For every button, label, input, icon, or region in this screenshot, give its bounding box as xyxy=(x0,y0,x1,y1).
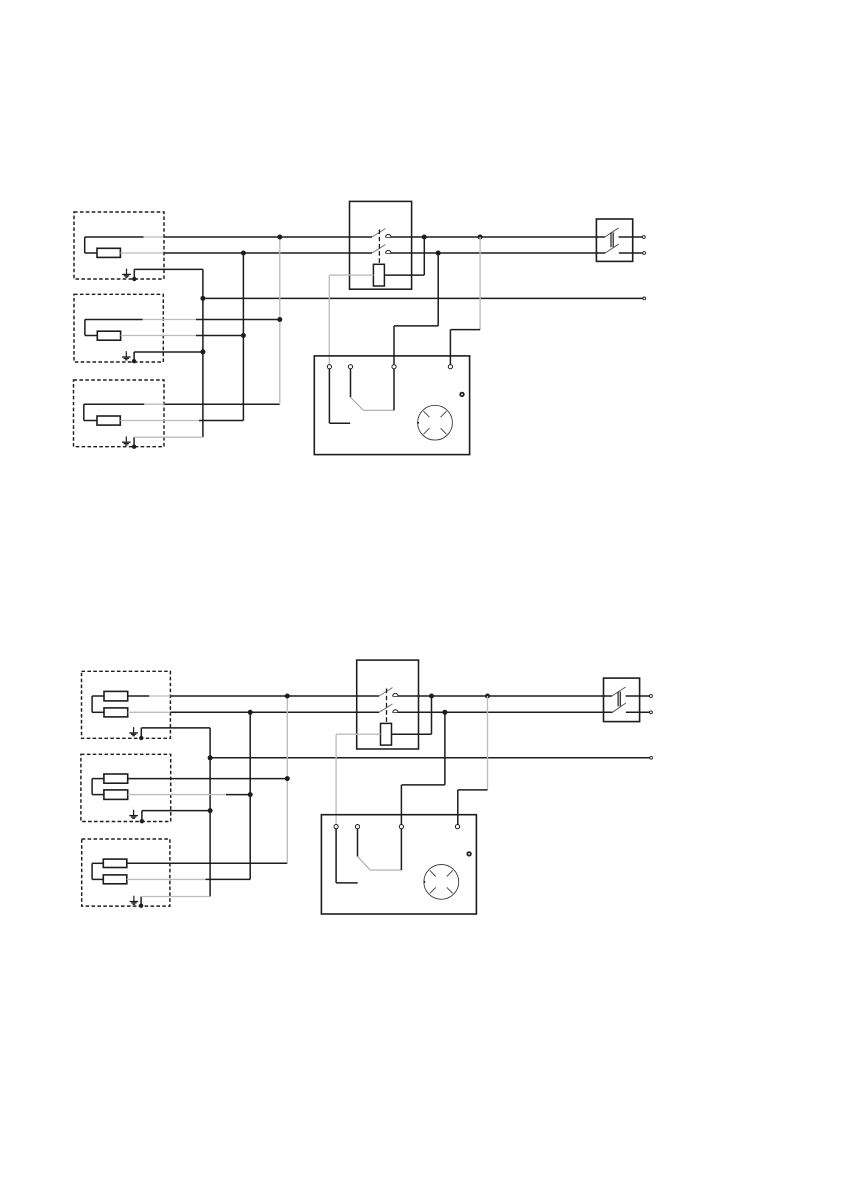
heater 1 enclosure (dashed, top diagram) xyxy=(74,212,164,279)
heater 2 enclosure (dashed, bottom) xyxy=(81,754,171,821)
thermostat switch blade (grey, bottom) xyxy=(358,857,402,871)
node: earth bus / wire PE junction xyxy=(200,296,205,301)
node: earth bus / heater 2 earth junction xyxy=(200,349,205,354)
heater 2 return wire, y=335.5 xyxy=(121,335,244,337)
wire: thermostat terminal 4 feed (grey riser) xyxy=(450,237,480,365)
wire: grey drop to thermostat terminal 1 (bottom) xyxy=(335,734,337,824)
wire PE (top): earth line, y=298 xyxy=(203,297,643,299)
heater 3 enclosure (dashed) xyxy=(74,380,165,447)
thermostat terminal 1 (bottom) xyxy=(334,825,338,829)
heater 1 earth wire xyxy=(132,269,203,281)
switch S1 pole 2 blade (bottom) xyxy=(379,704,392,712)
wire L (top): heater 1 to mains, y=237 xyxy=(85,236,643,238)
heater 2 enclosure (dashed) xyxy=(74,294,163,362)
heater 1 enclosure (dashed, bottom diagram) xyxy=(82,671,171,738)
connector X1 pole 2 symbol (bottom) xyxy=(612,703,626,712)
wire: thermostat terminal 3 feed (bottom) xyxy=(401,712,445,824)
node: bus/wire L junction xyxy=(277,235,282,240)
connector X1 pole 1 symbol (bottom) xyxy=(612,687,626,696)
heater 1 element R1a (bottom) xyxy=(104,691,128,701)
terminal: wire L end (top) xyxy=(643,236,646,239)
wire: actuator F1 left lead (grey) xyxy=(329,274,373,276)
connector X1 pole 1 symbol xyxy=(605,228,619,237)
wire: thermostat terminal 3 leg (bottom) xyxy=(400,829,402,870)
thermostat terminal 2 (bottom) xyxy=(355,825,359,829)
heater 2 ground symbol (bottom) xyxy=(129,810,138,819)
wire: thermostat terminal 4 feed (grey riser, bottom) xyxy=(458,696,488,825)
wire N (bottom): heater 1 to mains, y=712.3 xyxy=(128,711,650,713)
node: bus/heater2 return junction (bottom) xyxy=(248,792,253,797)
node: earth bus / heater 2 earth junction (bottom) xyxy=(208,808,213,813)
heater 3 return wire, y=420.5 xyxy=(120,420,243,422)
thermostat terminal 2 xyxy=(348,365,352,369)
heater 3 element R3b (bottom) xyxy=(103,875,127,884)
switch S1 enclosure (bottom diagram) xyxy=(357,660,419,749)
switch S1 pole 2 blade xyxy=(372,245,385,253)
switch S1 mechanical link (dashed, bottom) xyxy=(386,689,388,724)
heater 1 internal link wire xyxy=(85,237,97,253)
terminal: wire N end (top) xyxy=(643,252,646,255)
node: F1 lead / wire L junction (bottom) xyxy=(429,694,434,699)
heater 3 ground symbol xyxy=(122,436,131,445)
heater 1 earth wire (bottom) xyxy=(139,728,210,740)
neutral distribution bus vertical x=250 (bottom) xyxy=(249,712,251,879)
heater 3 ground symbol (bottom) xyxy=(130,896,139,905)
wire: actuator F1 left lead (grey, bottom) xyxy=(336,733,380,735)
thermostat B1 enclosure (bottom diagram) xyxy=(321,815,476,914)
node: wire L / thermostat branch junction xyxy=(478,235,483,240)
heater 3 series link wire (bottom) xyxy=(92,863,103,879)
heater 3 feed wire (bottom), y=863.3 xyxy=(127,862,287,864)
wire: grey drop to thermostat terminal 1 xyxy=(328,275,330,365)
wire PE (bottom): earth line, y=757.8 xyxy=(210,757,650,759)
indicator lamp xyxy=(460,393,464,397)
terminal: earth line end (top) xyxy=(643,297,646,300)
node: wire L / thermostat branch junction (bottom) xyxy=(485,694,490,699)
heater 3 earth wire (bottom) xyxy=(139,897,210,908)
heater 3 return wire (bottom), y=879.4 xyxy=(127,878,250,880)
node: bus/wire N junction (bottom) xyxy=(248,710,253,715)
indicator lamp (bottom) xyxy=(467,852,471,856)
terminal: earth line end (bottom) xyxy=(650,756,653,759)
node: F1 lead / wire L junction xyxy=(422,235,427,240)
node: wire N / thermostat branch junction (bottom) xyxy=(442,710,447,715)
heater 2 element R2 xyxy=(97,331,120,340)
switch S1 pole 2 contact xyxy=(386,250,391,253)
wire: thermostat terminal 2 leg (bottom) xyxy=(357,829,359,857)
heater 1 series link wire (bottom) xyxy=(92,696,104,712)
heater 2 ground symbol xyxy=(122,351,131,360)
heater 2 element R2b (bottom) xyxy=(104,790,128,800)
wire: actuator F1 right lead to wire L (bottom) xyxy=(392,696,432,734)
switch S1 pole 1 contact xyxy=(386,234,391,237)
wire: thermostat sensor leg from terminal 1 (bottom) xyxy=(336,829,358,883)
connector X1 contact bars xyxy=(611,232,613,247)
thermostat terminal 3 (bottom) xyxy=(399,825,403,829)
heater 3 earth wire xyxy=(132,437,203,449)
thermostat adjustment dial (bottom) xyxy=(423,865,458,900)
terminal: wire L end (bottom) xyxy=(650,695,653,698)
heater 1 ground symbol xyxy=(122,269,131,278)
heater 3 element R3a (bottom) xyxy=(103,859,127,867)
heater 2 feed wire, y=319.5 xyxy=(85,319,280,321)
plug connector X1 enclosure (top diagram) xyxy=(596,219,632,261)
wire: thermostat terminal 3 feed xyxy=(394,253,438,365)
heater 1 ground symbol (bottom) xyxy=(129,727,138,736)
thermostat terminal 4 xyxy=(448,365,452,369)
thermostat terminal 3 xyxy=(392,365,396,369)
wire: actuator F1 right lead to wire L xyxy=(384,237,424,275)
plug connector X1 enclosure (bottom diagram) xyxy=(604,678,640,722)
heater 2 return wire (bottom), y=794.6 xyxy=(128,794,251,796)
heater 3 internal link wire xyxy=(84,404,97,420)
thermostat terminal 4 (bottom) xyxy=(455,825,459,829)
node: bus/wire N junction xyxy=(241,251,246,256)
heater 2 feed wire (bottom), y=778.6 xyxy=(128,778,288,780)
node: bus/heater2 feed junction xyxy=(277,317,282,322)
wire L (bottom): heater 1 to mains, y=696 xyxy=(128,695,650,697)
heater 1 element R1b (bottom) xyxy=(104,708,128,717)
wire: thermostat terminal 3 leg xyxy=(393,369,395,410)
thermostat switch blade (grey) xyxy=(351,397,395,410)
switch S1 pole 1 blade xyxy=(372,229,385,237)
line distribution bus vertical x=287 (grey, bottom) xyxy=(286,696,288,863)
thermostat terminal 1 xyxy=(327,365,331,369)
heater 2 element R2a (bottom) xyxy=(104,774,128,783)
switch S1 enclosure (top diagram) xyxy=(350,201,412,289)
switch S1 pole 2 contact (bottom) xyxy=(393,710,398,713)
wire N (top): heater 1 element to mains, y=253 xyxy=(120,252,643,254)
switch S1 mechanical link (dashed) xyxy=(378,230,380,265)
heater 3 enclosure (dashed, bottom) xyxy=(82,839,170,906)
heater 3 element R3 xyxy=(97,416,120,425)
wire: thermostat terminal 2 leg xyxy=(350,369,352,397)
line distribution bus vertical x=280 (grey) xyxy=(279,237,281,404)
node: bus/heater2 return junction xyxy=(241,333,246,338)
node: wire N / thermostat branch junction xyxy=(436,251,441,256)
connector X1 pole 2 symbol xyxy=(605,244,619,253)
heater 2 earth wire xyxy=(132,352,203,363)
node: bus/wire L junction (bottom) xyxy=(285,694,290,699)
switch S1 pole 1 contact (bottom) xyxy=(393,693,398,696)
connector X1 contact bars (bottom) xyxy=(618,692,620,707)
heater 1 element R1 xyxy=(97,248,120,257)
node: earth bus / wire PE junction (bottom) xyxy=(208,755,213,760)
thermostat B1 enclosure (top diagram) xyxy=(314,356,469,455)
heater 2 earth wire (bottom) xyxy=(140,811,210,824)
wire: thermostat sensor leg from terminal 1 xyxy=(329,369,350,423)
heater 2 internal link wire xyxy=(85,320,97,336)
neutral distribution bus vertical x=243 xyxy=(242,253,244,421)
thermal actuator F1 (bottom) xyxy=(381,723,392,745)
earth bus vertical (top diagram) xyxy=(202,269,204,437)
switch S1 pole 1 blade (bottom) xyxy=(379,688,392,696)
earth bus vertical (bottom diagram) xyxy=(209,728,211,897)
terminal: wire N end (bottom) xyxy=(650,711,653,714)
node: bus/heater2 feed junction (bottom) xyxy=(285,776,290,781)
thermostat adjustment dial xyxy=(417,405,452,440)
heater 2 series link wire (bottom) xyxy=(92,779,104,795)
thermal actuator F1 xyxy=(373,264,384,286)
heater 3 feed wire, y=404 xyxy=(84,403,280,405)
